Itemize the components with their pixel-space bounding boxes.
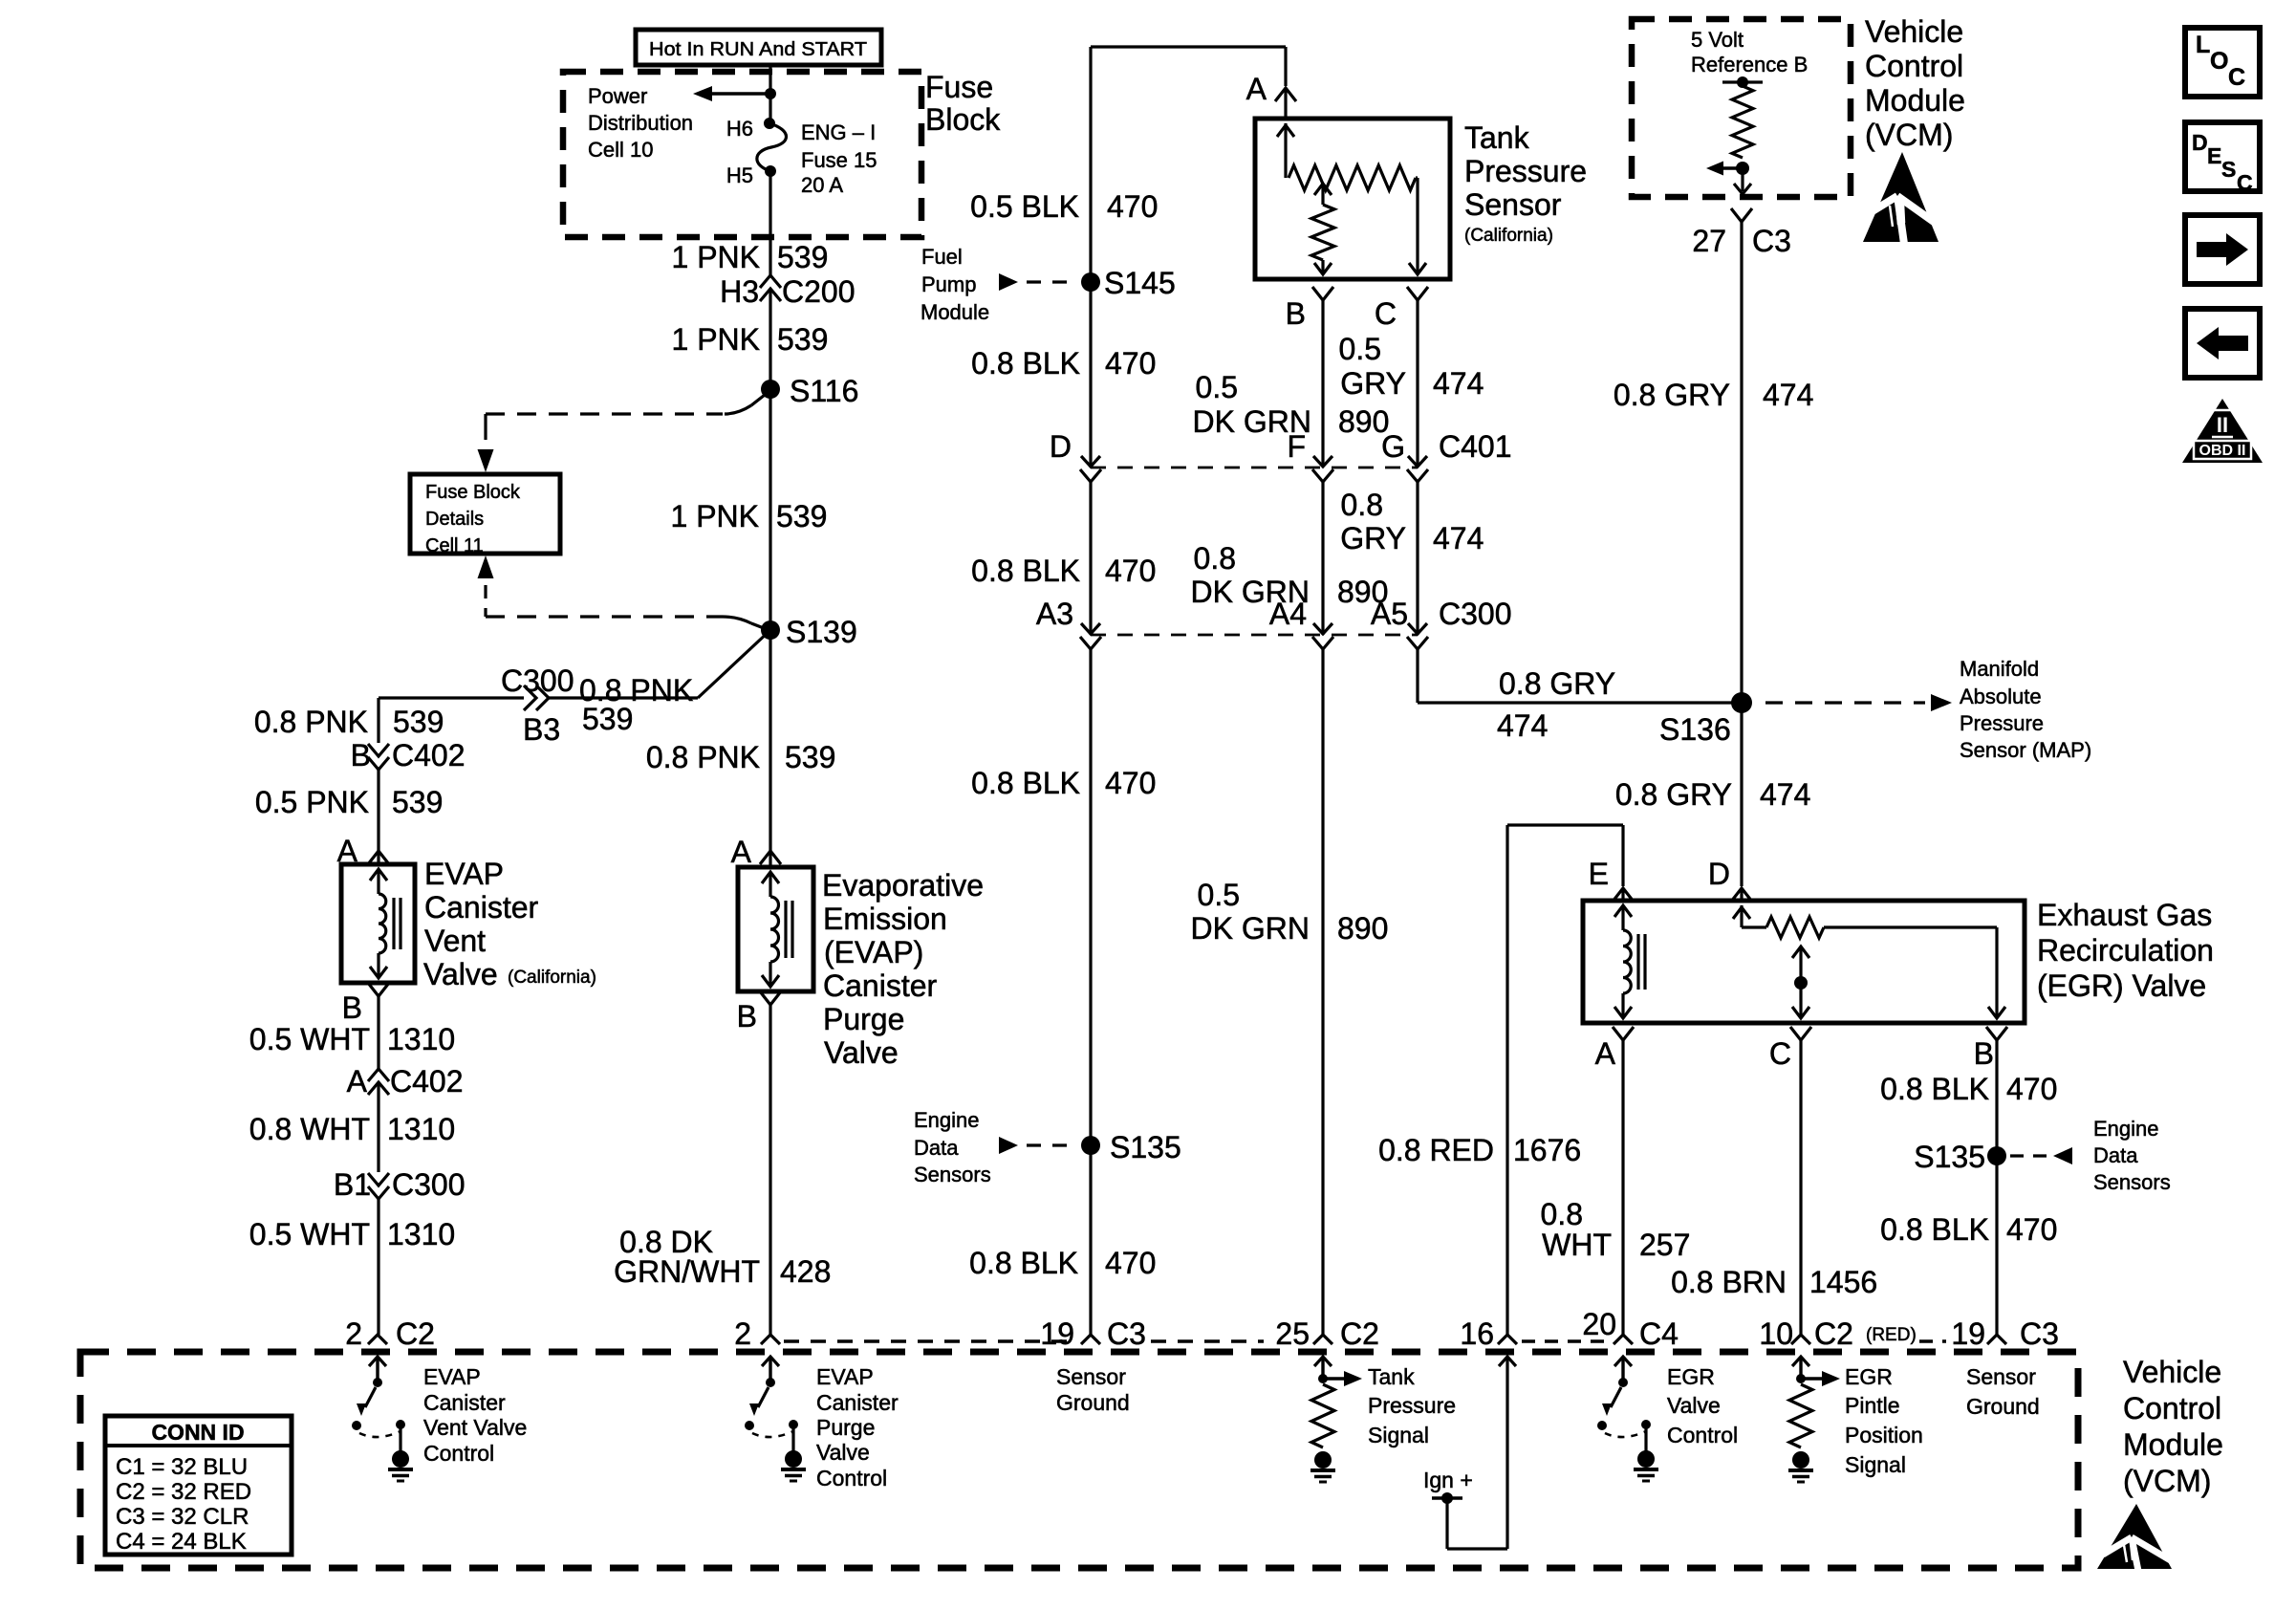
svg-text:Cell 10: Cell 10 bbox=[588, 138, 653, 162]
svg-text:470: 470 bbox=[2006, 1212, 2057, 1247]
svg-text:0.8 BLK: 0.8 BLK bbox=[971, 346, 1080, 381]
svg-text:Sensors: Sensors bbox=[914, 1163, 991, 1186]
svg-text:Reference B: Reference B bbox=[1691, 53, 1808, 76]
svg-text:Valve: Valve bbox=[816, 1440, 870, 1465]
svg-text:Canister: Canister bbox=[423, 1390, 506, 1415]
svg-text:Data: Data bbox=[914, 1136, 959, 1160]
svg-text:2: 2 bbox=[345, 1316, 362, 1351]
svg-text:H6: H6 bbox=[726, 117, 753, 141]
svg-text:20 A: 20 A bbox=[801, 173, 843, 197]
svg-text:ENG – I: ENG – I bbox=[801, 120, 876, 144]
svg-text:Block: Block bbox=[925, 102, 1001, 137]
svg-text:A: A bbox=[347, 1064, 368, 1099]
svg-text:Engine: Engine bbox=[2093, 1117, 2159, 1141]
svg-text:Evaporative: Evaporative bbox=[822, 868, 984, 903]
svg-text:Manifold: Manifold bbox=[1960, 657, 2039, 681]
svg-text:Ground: Ground bbox=[1966, 1394, 2040, 1419]
svg-text:Sensor: Sensor bbox=[1464, 187, 1562, 222]
svg-text:0.5: 0.5 bbox=[1198, 878, 1240, 912]
svg-text:C200: C200 bbox=[782, 274, 856, 309]
svg-text:E: E bbox=[1589, 857, 1609, 891]
svg-text:(VCM): (VCM) bbox=[2123, 1464, 2211, 1498]
svg-text:D: D bbox=[1708, 857, 1730, 891]
svg-text:C: C bbox=[2237, 170, 2253, 195]
svg-text:EVAP: EVAP bbox=[423, 1364, 481, 1389]
svg-text:Absolute: Absolute bbox=[1960, 685, 2042, 708]
svg-text:A: A bbox=[1595, 1036, 1616, 1071]
svg-text:1310: 1310 bbox=[387, 1217, 455, 1251]
svg-text:GRY: GRY bbox=[1340, 521, 1406, 555]
svg-text:Vehicle: Vehicle bbox=[1865, 14, 1963, 49]
svg-text:Ground: Ground bbox=[1056, 1390, 1130, 1415]
svg-text:C2 = 32 RED: C2 = 32 RED bbox=[116, 1479, 251, 1505]
svg-text:B1: B1 bbox=[334, 1167, 371, 1202]
svg-text:Distribution: Distribution bbox=[588, 111, 693, 135]
svg-text:C4 = 24 BLK: C4 = 24 BLK bbox=[116, 1529, 247, 1555]
svg-text:Canister: Canister bbox=[816, 1390, 899, 1415]
svg-text:Sensor: Sensor bbox=[1966, 1364, 2036, 1389]
svg-text:Vent Valve: Vent Valve bbox=[423, 1415, 527, 1440]
svg-text:A3: A3 bbox=[1036, 597, 1073, 631]
svg-text:Data: Data bbox=[2093, 1143, 2138, 1167]
svg-text:OBD II: OBD II bbox=[2199, 443, 2246, 459]
svg-text:(California): (California) bbox=[508, 968, 596, 988]
svg-text:470: 470 bbox=[1105, 766, 1156, 800]
svg-text:539: 539 bbox=[582, 702, 633, 736]
svg-text:0.8: 0.8 bbox=[1341, 488, 1383, 522]
svg-text:EGR: EGR bbox=[1667, 1364, 1715, 1389]
svg-text:S: S bbox=[2221, 157, 2236, 182]
svg-text:Module: Module bbox=[1865, 83, 1965, 118]
svg-text:A5: A5 bbox=[1371, 597, 1408, 631]
svg-text:1 PNK: 1 PNK bbox=[672, 240, 760, 274]
svg-text:C3: C3 bbox=[1752, 224, 1791, 258]
svg-text:0.8 BLK: 0.8 BLK bbox=[971, 554, 1080, 588]
svg-text:19: 19 bbox=[1040, 1316, 1074, 1351]
svg-text:Sensor (MAP): Sensor (MAP) bbox=[1960, 738, 2091, 762]
svg-text:474: 474 bbox=[1433, 521, 1484, 555]
svg-text:B: B bbox=[1974, 1036, 1994, 1071]
svg-text:C4: C4 bbox=[1639, 1316, 1679, 1351]
svg-text:Sensors: Sensors bbox=[2093, 1170, 2171, 1194]
svg-text:Fuel: Fuel bbox=[921, 245, 963, 269]
svg-text:539: 539 bbox=[777, 322, 828, 357]
svg-text:H3: H3 bbox=[720, 274, 759, 309]
svg-text:474: 474 bbox=[1433, 366, 1484, 401]
svg-text:0.5 PNK: 0.5 PNK bbox=[255, 785, 369, 819]
svg-text:C: C bbox=[1769, 1036, 1791, 1071]
svg-text:B: B bbox=[351, 738, 371, 772]
svg-text:Purge: Purge bbox=[816, 1415, 875, 1440]
svg-text:1456: 1456 bbox=[1809, 1265, 1877, 1299]
svg-text:D: D bbox=[2192, 130, 2208, 155]
svg-text:Valve: Valve bbox=[824, 1035, 899, 1070]
svg-text:C2: C2 bbox=[1814, 1316, 1853, 1351]
svg-text:S145: S145 bbox=[1104, 266, 1176, 300]
svg-text:(VCM): (VCM) bbox=[1865, 118, 1953, 152]
svg-text:0.8 PNK: 0.8 PNK bbox=[254, 705, 368, 739]
svg-text:0.5: 0.5 bbox=[1196, 370, 1238, 404]
svg-text:27: 27 bbox=[1692, 224, 1726, 258]
svg-text:L: L bbox=[2196, 32, 2210, 58]
svg-text:Pressure: Pressure bbox=[1464, 154, 1587, 188]
svg-text:WHT: WHT bbox=[1542, 1228, 1612, 1262]
svg-text:O: O bbox=[2210, 48, 2228, 75]
svg-text:Pump: Pump bbox=[921, 272, 976, 296]
svg-text:0.8 PNK: 0.8 PNK bbox=[646, 740, 760, 774]
svg-text:Control: Control bbox=[1865, 49, 1963, 83]
svg-text:B: B bbox=[737, 999, 757, 1033]
svg-text:GRY: GRY bbox=[1340, 366, 1406, 401]
svg-text:EVAP: EVAP bbox=[816, 1364, 874, 1389]
svg-text:B: B bbox=[1286, 296, 1306, 331]
svg-text:539: 539 bbox=[393, 705, 444, 739]
svg-text:470: 470 bbox=[1107, 189, 1158, 224]
svg-text:0.5 WHT: 0.5 WHT bbox=[249, 1217, 370, 1251]
svg-text:Cell 11: Cell 11 bbox=[425, 535, 484, 556]
svg-text:0.8 RED: 0.8 RED bbox=[1378, 1133, 1494, 1167]
svg-text:H5: H5 bbox=[726, 163, 753, 187]
svg-text:0.5 BLK: 0.5 BLK bbox=[970, 189, 1079, 224]
svg-text:Pintle: Pintle bbox=[1845, 1393, 1900, 1418]
svg-text:0.8 BLK: 0.8 BLK bbox=[1880, 1072, 1989, 1106]
svg-text:Valve: Valve bbox=[423, 957, 498, 991]
svg-text:428: 428 bbox=[780, 1254, 831, 1289]
svg-text:0.8: 0.8 bbox=[1541, 1197, 1583, 1231]
svg-text:E: E bbox=[2207, 143, 2221, 168]
svg-text:B3: B3 bbox=[523, 712, 560, 747]
svg-text:470: 470 bbox=[2006, 1072, 2057, 1106]
svg-text:Engine: Engine bbox=[914, 1108, 980, 1132]
svg-text:A: A bbox=[731, 835, 752, 869]
svg-text:DK GRN: DK GRN bbox=[1191, 911, 1310, 946]
svg-text:Tank: Tank bbox=[1464, 120, 1530, 155]
svg-text:(EVAP): (EVAP) bbox=[824, 935, 923, 969]
svg-text:25: 25 bbox=[1275, 1316, 1310, 1351]
svg-text:Module: Module bbox=[2123, 1427, 2223, 1462]
svg-text:Canister: Canister bbox=[424, 890, 539, 925]
svg-text:1676: 1676 bbox=[1513, 1133, 1581, 1167]
svg-text:Module: Module bbox=[921, 300, 989, 324]
svg-text:Pressure: Pressure bbox=[1960, 711, 2044, 735]
svg-text:C3: C3 bbox=[2020, 1316, 2059, 1351]
svg-text:EGR: EGR bbox=[1845, 1364, 1893, 1389]
svg-text:Control: Control bbox=[816, 1466, 887, 1490]
svg-text:Emission: Emission bbox=[823, 902, 947, 936]
svg-text:Ign +: Ign + bbox=[1423, 1468, 1473, 1492]
svg-text:EVAP: EVAP bbox=[424, 857, 504, 891]
svg-text:Control: Control bbox=[2123, 1391, 2221, 1425]
svg-text:470: 470 bbox=[1105, 346, 1156, 381]
svg-text:C401: C401 bbox=[1439, 429, 1512, 464]
svg-text:16: 16 bbox=[1460, 1316, 1494, 1351]
svg-text:Canister: Canister bbox=[823, 968, 938, 1003]
svg-text:Sensor: Sensor bbox=[1056, 1364, 1126, 1389]
svg-text:Signal: Signal bbox=[1845, 1452, 1906, 1477]
svg-text:Tank: Tank bbox=[1368, 1364, 1415, 1389]
svg-text:C402: C402 bbox=[392, 738, 466, 772]
svg-text:Control: Control bbox=[1667, 1423, 1738, 1447]
svg-text:Fuse 15: Fuse 15 bbox=[801, 148, 877, 172]
svg-text:II: II bbox=[2217, 413, 2228, 437]
svg-text:G: G bbox=[1381, 429, 1405, 464]
svg-text:1 PNK: 1 PNK bbox=[672, 322, 760, 357]
svg-text:(EGR) Valve: (EGR) Valve bbox=[2037, 968, 2206, 1003]
svg-text:Power: Power bbox=[588, 84, 647, 108]
svg-text:(California): (California) bbox=[1464, 226, 1553, 246]
svg-text:474: 474 bbox=[1763, 378, 1813, 412]
svg-text:0.8 WHT: 0.8 WHT bbox=[249, 1112, 370, 1146]
svg-text:Recirculation: Recirculation bbox=[2037, 933, 2214, 968]
svg-text:C3: C3 bbox=[1107, 1316, 1146, 1351]
svg-text:B: B bbox=[342, 990, 362, 1025]
svg-text:0.8 GRY: 0.8 GRY bbox=[1499, 666, 1615, 701]
svg-text:C1 = 32 BLU: C1 = 32 BLU bbox=[116, 1454, 248, 1480]
svg-text:2: 2 bbox=[734, 1316, 751, 1351]
svg-text:Fuse: Fuse bbox=[925, 70, 993, 104]
svg-text:S135: S135 bbox=[1110, 1130, 1181, 1164]
svg-text:C300: C300 bbox=[501, 664, 574, 698]
svg-text:0.8 BRN: 0.8 BRN bbox=[1671, 1265, 1787, 1299]
svg-text:10: 10 bbox=[1759, 1316, 1793, 1351]
svg-text:470: 470 bbox=[1105, 1246, 1156, 1280]
svg-text:CONN ID: CONN ID bbox=[151, 1420, 244, 1445]
svg-text:C2: C2 bbox=[1340, 1316, 1379, 1351]
svg-text:1 PNK: 1 PNK bbox=[671, 499, 759, 533]
svg-text:257: 257 bbox=[1639, 1228, 1690, 1262]
svg-text:Vehicle: Vehicle bbox=[2123, 1355, 2221, 1389]
svg-text:A4: A4 bbox=[1269, 597, 1307, 631]
svg-text:Valve: Valve bbox=[1667, 1393, 1721, 1418]
svg-text:539: 539 bbox=[392, 785, 443, 819]
svg-text:Details: Details bbox=[425, 509, 484, 530]
svg-text:(RED): (RED) bbox=[1866, 1325, 1917, 1345]
svg-text:Pressure: Pressure bbox=[1368, 1393, 1456, 1418]
svg-text:Purge: Purge bbox=[823, 1002, 904, 1036]
svg-text:539: 539 bbox=[776, 499, 827, 533]
svg-text:S136: S136 bbox=[1659, 712, 1731, 747]
svg-text:0.8 BLK: 0.8 BLK bbox=[969, 1246, 1078, 1280]
svg-text:474: 474 bbox=[1497, 708, 1548, 743]
svg-text:Vent: Vent bbox=[424, 924, 486, 958]
svg-text:A: A bbox=[1246, 72, 1267, 106]
svg-text:C402: C402 bbox=[390, 1064, 464, 1099]
svg-text:0.5: 0.5 bbox=[1339, 332, 1381, 366]
svg-text:0.8 GRY: 0.8 GRY bbox=[1615, 777, 1732, 812]
svg-text:D: D bbox=[1050, 429, 1072, 464]
svg-text:1310: 1310 bbox=[387, 1022, 455, 1056]
svg-text:890: 890 bbox=[1337, 911, 1388, 946]
svg-text:1310: 1310 bbox=[387, 1112, 455, 1146]
svg-text:20: 20 bbox=[1582, 1307, 1616, 1341]
svg-text:0.8 BLK: 0.8 BLK bbox=[1880, 1212, 1989, 1247]
svg-text:5 Volt: 5 Volt bbox=[1691, 28, 1744, 52]
svg-text:F: F bbox=[1287, 429, 1306, 464]
svg-text:S139: S139 bbox=[786, 615, 857, 649]
svg-text:C300: C300 bbox=[392, 1167, 466, 1202]
svg-text:C: C bbox=[2228, 64, 2245, 91]
svg-text:C3 = 32 CLR: C3 = 32 CLR bbox=[116, 1504, 249, 1530]
svg-text:Fuse Block: Fuse Block bbox=[425, 482, 521, 503]
svg-text:474: 474 bbox=[1760, 777, 1810, 812]
svg-text:0.8: 0.8 bbox=[1194, 541, 1236, 576]
svg-text:Position: Position bbox=[1845, 1423, 1923, 1447]
svg-text:C300: C300 bbox=[1439, 597, 1512, 631]
svg-text:0.8 BLK: 0.8 BLK bbox=[971, 766, 1080, 800]
svg-text:C2: C2 bbox=[396, 1316, 435, 1351]
svg-text:0.5 WHT: 0.5 WHT bbox=[249, 1022, 370, 1056]
svg-text:GRN/WHT: GRN/WHT bbox=[614, 1254, 760, 1289]
svg-text:470: 470 bbox=[1105, 554, 1156, 588]
svg-text:19: 19 bbox=[1951, 1316, 1985, 1351]
svg-text:Control: Control bbox=[423, 1441, 494, 1466]
svg-text:0.8 GRY: 0.8 GRY bbox=[1614, 378, 1730, 412]
svg-text:C: C bbox=[1375, 296, 1397, 331]
svg-text:S135: S135 bbox=[1914, 1140, 1985, 1174]
svg-text:Signal: Signal bbox=[1368, 1423, 1429, 1447]
svg-text:S116: S116 bbox=[790, 374, 858, 408]
svg-text:Exhaust Gas: Exhaust Gas bbox=[2037, 898, 2212, 932]
svg-text:Hot In RUN And START: Hot In RUN And START bbox=[649, 39, 867, 60]
svg-text:539: 539 bbox=[785, 740, 835, 774]
svg-text:539: 539 bbox=[777, 240, 828, 274]
